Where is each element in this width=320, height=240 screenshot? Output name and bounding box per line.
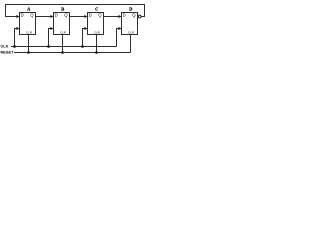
svg-text:CLR: CLR bbox=[128, 30, 134, 34]
flip-flop D body bbox=[122, 13, 138, 35]
svg-text:CLR: CLR bbox=[26, 30, 32, 34]
wire RESET bus bbox=[14, 52, 131, 54]
wire CLR FF A to RESET bbox=[28, 35, 30, 53]
arrowhead clock FF A bbox=[16, 27, 19, 30]
flip-flop A body bbox=[20, 13, 36, 35]
arrowhead clock FF C bbox=[84, 27, 87, 30]
svg-text:C: C bbox=[95, 6, 98, 11]
wire clock input FF C bbox=[83, 29, 85, 47]
wire Q A to D B bbox=[36, 16, 51, 18]
svg-text:D: D bbox=[21, 13, 24, 18]
svg-text:D: D bbox=[89, 13, 92, 18]
svg-text:CLK: CLK bbox=[1, 43, 9, 48]
junction CLK / clock B bbox=[47, 45, 50, 48]
flip-flop C body bbox=[88, 13, 104, 35]
arrowhead D input FF C bbox=[84, 15, 87, 18]
arrowhead clock FF B bbox=[50, 27, 53, 30]
svg-text:D: D bbox=[55, 13, 58, 18]
wire Q C to D D bbox=[104, 16, 119, 18]
svg-text:D: D bbox=[123, 13, 126, 18]
svg-text:CLR: CLR bbox=[60, 30, 66, 34]
wire CLR FF C to RESET bbox=[96, 35, 98, 53]
arrowhead D input FF D bbox=[118, 15, 121, 18]
wire CLR FF D to RESET bbox=[130, 35, 132, 53]
wire Q B to D C bbox=[70, 16, 85, 18]
wire clock input FF A bbox=[15, 29, 17, 47]
wire clock input FF B bbox=[49, 29, 51, 47]
inversion bubble on FF D output bbox=[138, 15, 141, 18]
wire CLK bus bbox=[11, 46, 117, 48]
svg-text:B: B bbox=[61, 6, 64, 11]
junction RESET / CLR C bbox=[95, 51, 98, 54]
junction CLK / clock A bbox=[13, 45, 16, 48]
wire feedback from Q' of FF D to D of FF A bbox=[6, 5, 145, 17]
junction RESET / CLR B bbox=[61, 51, 64, 54]
wire CLR FF B to RESET bbox=[62, 35, 64, 53]
arrowhead D input FF A bbox=[16, 15, 19, 18]
arrowhead D input FF B bbox=[50, 15, 53, 18]
junction RESET / CLR A bbox=[27, 51, 30, 54]
flip-flop B body bbox=[54, 13, 70, 35]
junction CLK / clock C bbox=[81, 45, 84, 48]
wire clock input FF D bbox=[117, 29, 119, 47]
svg-text:CLR: CLR bbox=[94, 30, 100, 34]
arrowhead clock FF D bbox=[118, 27, 121, 30]
svg-text:RESET: RESET bbox=[1, 49, 15, 54]
